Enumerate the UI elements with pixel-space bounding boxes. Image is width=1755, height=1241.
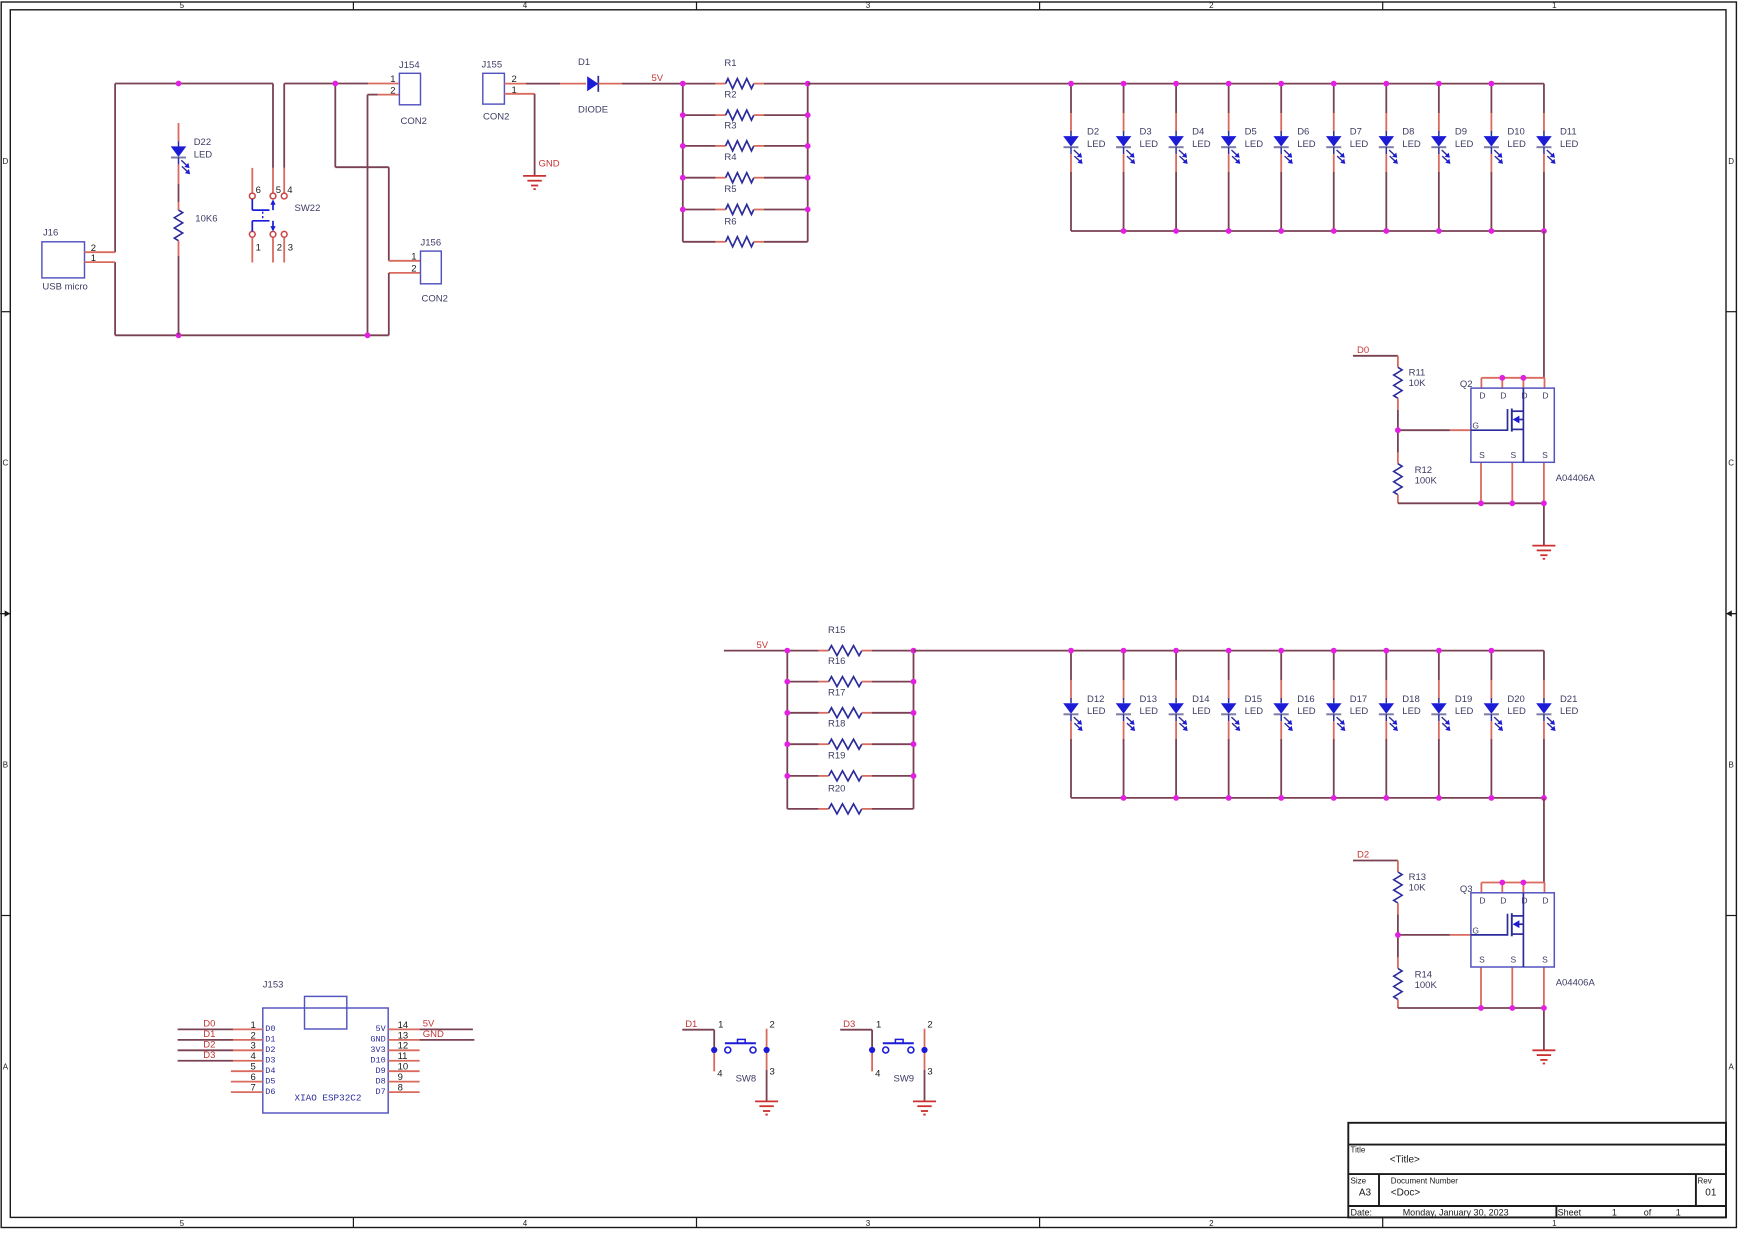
- connector J16 USB micro: [42, 228, 115, 293]
- svg-text:R1: R1: [724, 58, 736, 69]
- svg-text:D4: D4: [1192, 127, 1204, 138]
- svg-text:Q3: Q3: [1460, 884, 1473, 895]
- svg-text:3: 3: [288, 242, 293, 253]
- svg-text:9: 9: [398, 1072, 403, 1083]
- svg-text:5V: 5V: [423, 1019, 435, 1030]
- resistor R20: [787, 783, 913, 814]
- resistor R3: [683, 120, 808, 151]
- D1 labels: [578, 57, 608, 116]
- svg-text:2: 2: [1209, 1219, 1214, 1228]
- wire drain bus of Q3: [1481, 883, 1544, 893]
- svg-text:LED: LED: [1245, 139, 1264, 150]
- svg-text:D4: D4: [265, 1066, 275, 1076]
- svg-text:D2: D2: [265, 1045, 275, 1055]
- svg-text:10K: 10K: [1409, 883, 1427, 894]
- resistor R4: [683, 152, 808, 183]
- LED D10: [1484, 84, 1526, 231]
- switch SW8: [711, 1029, 770, 1102]
- svg-text:D: D: [1479, 391, 1485, 401]
- LED D16: [1273, 651, 1315, 798]
- svg-text:D16: D16: [1297, 694, 1314, 705]
- svg-text:LED: LED: [1560, 139, 1579, 150]
- svg-text:LED: LED: [1402, 706, 1421, 717]
- svg-text:LED: LED: [1350, 139, 1369, 150]
- svg-text:LED: LED: [1507, 139, 1526, 150]
- LED D6: [1273, 84, 1315, 231]
- svg-text:D3: D3: [203, 1050, 215, 1061]
- svg-text:D21: D21: [1560, 694, 1577, 705]
- ground symbol GND: [523, 175, 546, 177]
- svg-text:GND: GND: [423, 1029, 444, 1040]
- svg-text:S: S: [1479, 450, 1485, 460]
- svg-text:10K6: 10K6: [195, 214, 217, 225]
- svg-text:J16: J16: [43, 228, 58, 239]
- svg-text:4: 4: [717, 1068, 722, 1079]
- svg-text:4: 4: [523, 1219, 528, 1228]
- svg-text:1: 1: [91, 253, 96, 264]
- svg-text:A04406A: A04406A: [1556, 978, 1596, 989]
- svg-text:D17: D17: [1350, 694, 1367, 705]
- svg-text:A: A: [1729, 1063, 1735, 1072]
- svg-text:A04406A: A04406A: [1556, 473, 1596, 484]
- svg-text:D: D: [1479, 895, 1485, 905]
- wire J154 pin2 to bottom bus: [368, 94, 378, 96]
- svg-text:SW9: SW9: [894, 1073, 915, 1084]
- svg-text:3: 3: [866, 1219, 871, 1228]
- svg-text:8: 8: [398, 1083, 403, 1094]
- J153 left pin wires: [178, 1029, 263, 1092]
- svg-text:3V3: 3V3: [370, 1045, 385, 1055]
- svg-text:<Title>: <Title>: [1390, 1154, 1420, 1165]
- svg-text:R15: R15: [828, 625, 845, 636]
- svg-text:2: 2: [390, 85, 395, 96]
- svg-text:5V: 5V: [757, 640, 769, 651]
- svg-text:6: 6: [251, 1072, 256, 1083]
- svg-text:CON2: CON2: [483, 112, 509, 123]
- svg-text:2: 2: [770, 1019, 775, 1030]
- wire 5V bus to LED bank 1: [808, 83, 1544, 85]
- svg-text:G: G: [1472, 421, 1479, 431]
- svg-text:D0: D0: [265, 1024, 275, 1034]
- svg-text:GND: GND: [539, 159, 560, 170]
- svg-text:3: 3: [927, 1067, 932, 1078]
- svg-text:D1: D1: [203, 1029, 215, 1040]
- svg-text:D13: D13: [1140, 694, 1157, 705]
- svg-text:10K: 10K: [1409, 378, 1427, 389]
- LED D9: [1431, 84, 1473, 231]
- J153 right pin numbers: [398, 1020, 409, 1094]
- svg-text:2: 2: [251, 1030, 256, 1041]
- svg-text:Size: Size: [1351, 1177, 1367, 1186]
- J153 left pin numbers: [251, 1020, 256, 1094]
- junction dots LED bank 1: [1068, 81, 1547, 234]
- svg-text:D18: D18: [1402, 694, 1419, 705]
- svg-text:1: 1: [876, 1019, 881, 1030]
- svg-text:Monday, January 30, 2023: Monday, January 30, 2023: [1403, 1208, 1509, 1218]
- svg-text:5: 5: [251, 1062, 256, 1073]
- svg-text:SW22: SW22: [295, 203, 321, 214]
- junction dots Q2: [1395, 375, 1547, 506]
- LED D11: [1536, 84, 1578, 231]
- LED D21: [1536, 651, 1578, 798]
- junction dots top-left: [176, 81, 371, 339]
- svg-text:Document Number: Document Number: [1391, 1177, 1458, 1186]
- svg-text:4: 4: [251, 1051, 256, 1062]
- wire source stubs of Q3: [1481, 967, 1544, 1008]
- svg-text:S: S: [1479, 955, 1485, 965]
- svg-text:7: 7: [251, 1083, 256, 1094]
- svg-text:14: 14: [398, 1020, 409, 1031]
- LED D19: [1431, 651, 1473, 798]
- wire R15-R20 left bus: [786, 651, 788, 809]
- svg-text:D10: D10: [370, 1056, 385, 1066]
- connector J155: [482, 60, 510, 123]
- switch SW9: [869, 1029, 928, 1102]
- svg-text:USB micro: USB micro: [42, 282, 87, 293]
- LED D14: [1168, 651, 1210, 798]
- svg-text:D6: D6: [265, 1087, 275, 1097]
- svg-text:5: 5: [180, 1, 185, 10]
- svg-text:D5: D5: [1245, 127, 1257, 138]
- svg-text:R19: R19: [828, 750, 845, 761]
- D22 label: [194, 137, 213, 161]
- svg-text:D2: D2: [1357, 850, 1369, 861]
- svg-text:4: 4: [875, 1068, 880, 1079]
- svg-text:R14: R14: [1415, 970, 1432, 981]
- svg-text:R20: R20: [828, 783, 845, 794]
- resistor R6: [683, 216, 808, 247]
- wire gate of Q2: [1398, 429, 1471, 431]
- svg-text:5V: 5V: [652, 73, 664, 84]
- J153 right pin wires: [388, 1029, 474, 1092]
- svg-text:4: 4: [523, 1, 528, 10]
- svg-text:R5: R5: [724, 184, 736, 195]
- svg-text:1: 1: [411, 252, 416, 263]
- wire source stubs of Q2: [1481, 462, 1544, 503]
- svg-text:1: 1: [1552, 1, 1557, 10]
- svg-text:C: C: [1728, 459, 1734, 468]
- wire J156 pin2 to bottom bus: [389, 272, 421, 274]
- LED D20: [1484, 651, 1526, 798]
- svg-text:LED: LED: [1297, 139, 1316, 150]
- svg-text:12: 12: [398, 1041, 409, 1052]
- svg-text:5: 5: [180, 1219, 185, 1228]
- svg-text:10: 10: [398, 1062, 409, 1073]
- svg-text:R6: R6: [724, 216, 736, 227]
- svg-text:5: 5: [276, 185, 281, 196]
- svg-text:01: 01: [1705, 1187, 1717, 1198]
- resistor R11 10K: [1394, 356, 1426, 430]
- resistor R1: [683, 58, 808, 89]
- title block text: [1351, 1146, 1717, 1218]
- svg-text:J156: J156: [421, 238, 442, 249]
- svg-text:D1: D1: [685, 1019, 697, 1030]
- SW8 pin numbers: [717, 1019, 775, 1079]
- svg-text:J153: J153: [263, 980, 284, 991]
- svg-text:D14: D14: [1192, 694, 1209, 705]
- LED D17: [1326, 651, 1368, 798]
- resistor R13 10K: [1394, 861, 1426, 935]
- svg-text:D7: D7: [375, 1087, 385, 1097]
- resistor R5: [683, 184, 808, 215]
- svg-text:Date:: Date:: [1351, 1208, 1373, 1218]
- junction dots Q3: [1395, 880, 1547, 1011]
- wire source bus of Q3: [1398, 1008, 1544, 1050]
- svg-text:LED: LED: [1402, 139, 1421, 150]
- svg-text:LED: LED: [1087, 706, 1106, 717]
- svg-text:D3: D3: [265, 1056, 275, 1066]
- svg-text:D9: D9: [375, 1066, 385, 1076]
- connector J154: [399, 60, 427, 127]
- svg-text:D10: D10: [1507, 127, 1524, 138]
- wire drain bus of Q2: [1481, 378, 1544, 388]
- svg-text:D7: D7: [1350, 127, 1362, 138]
- wire net D2 to R13: [1353, 860, 1398, 862]
- wire net D0 to R11: [1353, 355, 1398, 357]
- svg-text:D: D: [1500, 895, 1506, 905]
- svg-text:2: 2: [277, 242, 282, 253]
- svg-text:of: of: [1644, 1208, 1652, 1218]
- svg-text:3: 3: [866, 1, 871, 10]
- svg-text:D2: D2: [203, 1040, 215, 1051]
- wire R15-R20 right bus: [913, 651, 915, 809]
- svg-text:3: 3: [770, 1067, 775, 1078]
- svg-text:2: 2: [1209, 1, 1214, 10]
- J154 pin numbers: [390, 74, 395, 96]
- center fold arrows: [0, 610, 1736, 616]
- wire net D3 to SW9: [840, 1030, 872, 1050]
- svg-text:1: 1: [251, 1020, 256, 1031]
- svg-text:GND: GND: [370, 1035, 385, 1045]
- LED D18: [1379, 651, 1421, 798]
- svg-text:1: 1: [390, 74, 395, 85]
- svg-text:D22: D22: [194, 137, 211, 148]
- resistor R15: [787, 625, 913, 656]
- LED D12: [1063, 651, 1105, 798]
- LED D7: [1326, 84, 1368, 231]
- svg-text:LED: LED: [1192, 139, 1211, 150]
- wire left vertical to J16: [114, 84, 116, 253]
- svg-text:LED: LED: [1455, 706, 1474, 717]
- junction dots R1-R6 buses: [680, 81, 811, 213]
- wire bottom GND bus: [115, 334, 389, 336]
- svg-text:LED: LED: [194, 150, 213, 161]
- ground symbol below SW9: [913, 1100, 936, 1102]
- svg-text:D8: D8: [375, 1076, 385, 1086]
- svg-text:D0: D0: [203, 1019, 215, 1030]
- svg-text:Sheet: Sheet: [1558, 1208, 1582, 1218]
- svg-text:LED: LED: [1245, 706, 1264, 717]
- svg-text:6: 6: [256, 185, 261, 196]
- svg-text:LED: LED: [1192, 706, 1211, 717]
- transistor Q3 A04406A: [1460, 884, 1554, 967]
- svg-text:R3: R3: [724, 120, 736, 131]
- J156 pin numbers: [411, 252, 416, 275]
- svg-text:1: 1: [1612, 1208, 1617, 1218]
- wire R1-R6 right bus: [807, 84, 809, 242]
- svg-text:2: 2: [927, 1019, 932, 1030]
- svg-text:D: D: [1728, 157, 1734, 166]
- svg-text:LED: LED: [1350, 706, 1369, 717]
- LED D22: [171, 123, 190, 202]
- J155 pin numbers: [512, 74, 517, 96]
- wire LED bank 2 bottom bus: [1071, 797, 1544, 799]
- svg-text:R4: R4: [724, 152, 736, 163]
- wire net D1 to SW8: [682, 1030, 714, 1050]
- svg-text:DIODE: DIODE: [578, 105, 608, 116]
- resistor R19: [787, 750, 913, 781]
- svg-text:A3: A3: [1359, 1187, 1372, 1198]
- svg-text:CON2: CON2: [401, 116, 427, 127]
- svg-text:R2: R2: [724, 90, 736, 101]
- svg-text:3: 3: [251, 1041, 256, 1052]
- svg-text:2: 2: [411, 264, 416, 275]
- svg-text:J155: J155: [482, 60, 503, 71]
- wire LED bank 1 bottom bus: [1071, 230, 1544, 232]
- svg-text:R17: R17: [828, 687, 845, 698]
- svg-text:D3: D3: [1140, 127, 1152, 138]
- module J153 XIAO ESP32C2: [263, 980, 388, 1113]
- svg-text:R12: R12: [1415, 465, 1432, 476]
- title block frame: [1348, 1123, 1726, 1218]
- wire J155 pin2 to D1: [504, 83, 586, 85]
- svg-text:D: D: [1542, 391, 1548, 401]
- svg-text:D6: D6: [1297, 127, 1309, 138]
- svg-text:1: 1: [1552, 1219, 1557, 1228]
- SW9 pin numbers: [875, 1019, 933, 1079]
- svg-text:S: S: [1510, 955, 1516, 965]
- net labels D0-D3 at J153: [203, 1019, 215, 1061]
- wire R1-R6 left bus: [682, 84, 684, 242]
- svg-text:LED: LED: [1560, 706, 1579, 717]
- svg-text:D1: D1: [265, 1035, 275, 1045]
- connector J156: [421, 238, 448, 305]
- svg-text:D20: D20: [1507, 694, 1524, 705]
- resistor R16: [787, 656, 913, 687]
- svg-text:100K: 100K: [1415, 980, 1438, 991]
- svg-text:D8: D8: [1402, 127, 1414, 138]
- LED D2: [1063, 84, 1105, 231]
- wire D1 to 5V junction: [598, 83, 683, 85]
- svg-text:R16: R16: [828, 656, 845, 667]
- svg-text:R13: R13: [1409, 872, 1426, 883]
- svg-text:D9: D9: [1455, 127, 1467, 138]
- svg-text:D12: D12: [1087, 694, 1104, 705]
- svg-text:D1: D1: [578, 57, 590, 68]
- svg-text:J154: J154: [399, 60, 420, 71]
- resistor R2: [683, 90, 808, 121]
- svg-text:A: A: [3, 1063, 9, 1072]
- LED D13: [1116, 651, 1158, 798]
- ground symbol below Q3: [1532, 1049, 1555, 1051]
- svg-text:D3: D3: [843, 1019, 855, 1030]
- J16 pin numbers: [91, 243, 96, 264]
- LED D3: [1116, 84, 1158, 231]
- ground symbol below Q2: [1532, 545, 1555, 547]
- svg-text:LED: LED: [1087, 139, 1106, 150]
- resistor R17: [787, 687, 913, 718]
- svg-text:D: D: [1542, 895, 1548, 905]
- svg-text:CON2: CON2: [422, 294, 448, 305]
- wire 5V bus to LED bank 2: [914, 650, 1544, 652]
- svg-text:Rev: Rev: [1698, 1177, 1712, 1186]
- resistor R18: [787, 719, 913, 750]
- svg-text:S: S: [1542, 450, 1548, 460]
- svg-text:100K: 100K: [1415, 476, 1438, 487]
- svg-text:D2: D2: [1087, 127, 1099, 138]
- svg-text:13: 13: [398, 1030, 409, 1041]
- resistor R12 100K: [1394, 430, 1438, 503]
- svg-text:<Doc>: <Doc>: [1391, 1187, 1421, 1198]
- diode D1: [587, 76, 598, 92]
- svg-text:1: 1: [256, 242, 261, 253]
- svg-text:Q2: Q2: [1460, 379, 1473, 390]
- svg-text:D: D: [1521, 895, 1527, 905]
- svg-text:D15: D15: [1245, 694, 1262, 705]
- svg-text:LED: LED: [1507, 706, 1526, 717]
- svg-text:R18: R18: [828, 719, 845, 730]
- wire 5V-USB top bus: [115, 83, 273, 85]
- svg-text:LED: LED: [1297, 706, 1316, 717]
- SW22 pin numbers: [256, 185, 293, 253]
- wire gate of Q3: [1398, 934, 1471, 936]
- svg-text:R11: R11: [1409, 368, 1426, 379]
- svg-text:D: D: [3, 157, 9, 166]
- LED D15: [1221, 651, 1263, 798]
- LED D5: [1221, 84, 1263, 231]
- transistor Q2 A04406A: [1460, 379, 1554, 462]
- svg-text:LED: LED: [1140, 139, 1159, 150]
- svg-text:G: G: [1472, 925, 1479, 935]
- J153 left pin names: [265, 1024, 275, 1097]
- J153 right pin names: [370, 1024, 386, 1097]
- svg-text:5V: 5V: [375, 1024, 386, 1034]
- svg-text:SW8: SW8: [736, 1073, 757, 1084]
- wire drain net to Q2: [1543, 231, 1545, 378]
- svg-text:S: S: [1542, 955, 1548, 965]
- svg-text:S: S: [1510, 450, 1516, 460]
- LED D4: [1168, 84, 1210, 231]
- svg-text:D: D: [1521, 391, 1527, 401]
- resistor 10K6: [174, 202, 182, 335]
- svg-text:XIAO ESP32C2: XIAO ESP32C2: [295, 1093, 362, 1104]
- svg-text:D11: D11: [1560, 127, 1577, 138]
- svg-text:C: C: [3, 459, 9, 468]
- junction dots LED bank 2: [1068, 648, 1547, 801]
- LED D8: [1379, 84, 1421, 231]
- ground symbol below SW8: [755, 1100, 778, 1102]
- svg-text:D: D: [1500, 391, 1506, 401]
- wire J155 pin1 to ground: [504, 94, 534, 176]
- wire 5V feed bank 2: [724, 650, 787, 652]
- svg-text:B: B: [3, 761, 8, 770]
- svg-text:D0: D0: [1357, 345, 1369, 356]
- svg-text:11: 11: [398, 1051, 408, 1062]
- svg-text:Title: Title: [1351, 1146, 1366, 1155]
- wire source bus of Q2: [1398, 503, 1544, 545]
- wire drain net to Q3: [1543, 798, 1545, 883]
- svg-text:1: 1: [718, 1019, 723, 1030]
- resistor R14 100K: [1394, 935, 1438, 1008]
- switch SW22: [249, 168, 287, 263]
- svg-text:1: 1: [1676, 1208, 1681, 1218]
- svg-text:LED: LED: [1140, 706, 1159, 717]
- svg-text:LED: LED: [1455, 139, 1474, 150]
- svg-text:D19: D19: [1455, 694, 1472, 705]
- svg-text:D5: D5: [265, 1076, 275, 1086]
- svg-text:4: 4: [287, 185, 292, 196]
- junction dots R15-R20 buses: [784, 648, 916, 779]
